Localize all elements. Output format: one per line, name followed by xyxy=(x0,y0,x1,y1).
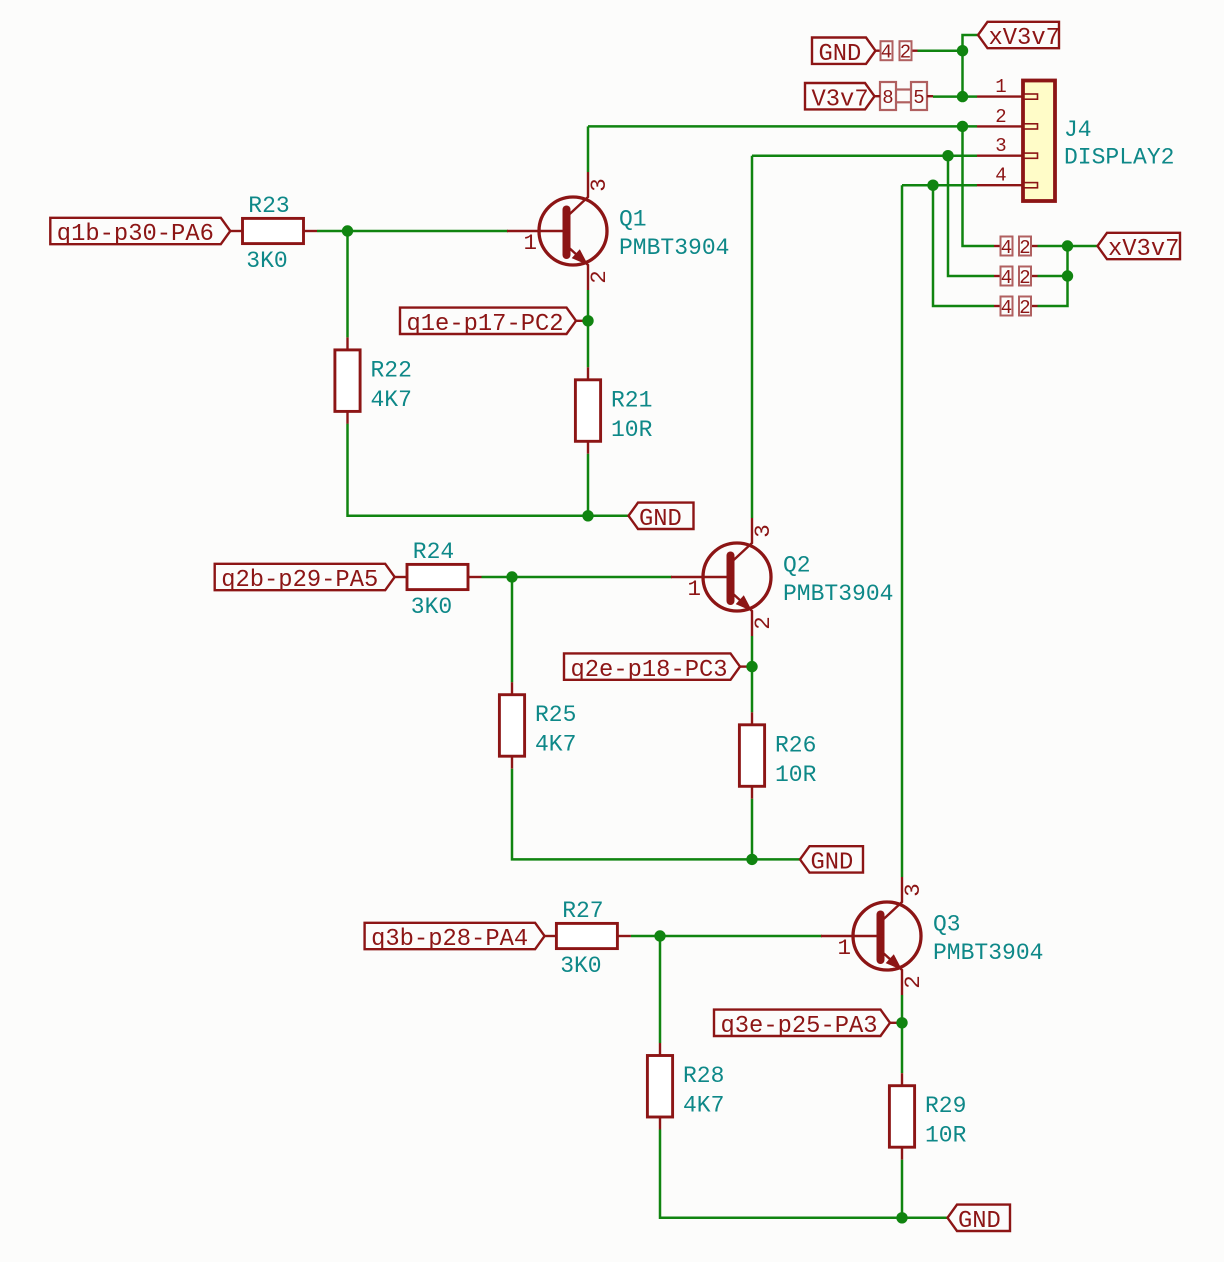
junction Q2 GND node xyxy=(746,854,757,865)
svg-text:1: 1 xyxy=(995,76,1006,98)
connector J4 pin 3 xyxy=(977,153,1038,158)
global label GND (top) xyxy=(812,38,876,68)
svg-text:q2e-p18-PC3: q2e-p18-PC3 xyxy=(571,657,728,684)
svg-text:Q1: Q1 xyxy=(619,207,647,233)
wire V3v7 jumper to node xyxy=(933,95,963,98)
solder jumper row3 pin stubs xyxy=(994,305,1001,307)
junction J4 pin4 node xyxy=(927,180,938,191)
svg-text:2: 2 xyxy=(586,270,612,284)
transistor Q3 (PMBT3904) xyxy=(821,877,921,995)
solder jumper JP-GND pad 2 xyxy=(900,41,912,60)
svg-text:4: 4 xyxy=(1001,267,1012,289)
junction Q2 base node xyxy=(506,571,517,582)
svg-text:10R: 10R xyxy=(775,762,817,788)
wire GND node to GND label xyxy=(902,1217,948,1220)
junction q1e node xyxy=(582,315,593,326)
svg-text:GND: GND xyxy=(958,1208,1001,1235)
svg-text:R25: R25 xyxy=(535,702,576,728)
wire node to xV3v7 label xyxy=(963,35,979,52)
wire GND node to GND label xyxy=(752,858,800,861)
global label xV3v7 (right) xyxy=(1098,233,1181,263)
svg-text:2: 2 xyxy=(1019,237,1030,259)
wire base node to Q1 xyxy=(348,230,509,233)
wire R22 to Q1 GND node xyxy=(348,424,589,516)
wire Q2 emitter down xyxy=(751,636,754,667)
svg-text:5: 5 xyxy=(913,87,924,109)
svg-text:3: 3 xyxy=(995,135,1006,157)
junction Q3 base node xyxy=(654,930,665,941)
solder jumper JP-GND pad 4 xyxy=(881,41,893,60)
svg-text:V3v7: V3v7 xyxy=(812,86,869,113)
wire Q3 emitter down xyxy=(901,995,904,1023)
svg-text:4K7: 4K7 xyxy=(683,1093,724,1119)
svg-text:2: 2 xyxy=(900,42,911,64)
svg-text:PMBT3904: PMBT3904 xyxy=(619,235,729,261)
svg-text:1: 1 xyxy=(687,576,701,602)
svg-text:GND: GND xyxy=(819,41,862,68)
resistor R26 body xyxy=(739,725,764,787)
svg-text:R23: R23 xyxy=(248,193,289,219)
resistor R28 body xyxy=(647,1056,672,1118)
svg-text:q3e-p25-PA3: q3e-p25-PA3 xyxy=(721,1013,878,1040)
svg-text:q1b-p30-PA6: q1b-p30-PA6 xyxy=(57,221,214,248)
svg-text:4: 4 xyxy=(1001,237,1012,259)
resistor R22 body xyxy=(335,350,360,412)
wire R21 to GND node xyxy=(587,454,590,516)
junction row2 node xyxy=(1062,270,1073,281)
svg-text:10R: 10R xyxy=(611,417,653,443)
junction J4 pin3 node xyxy=(942,150,953,161)
svg-text:Q3: Q3 xyxy=(933,912,961,938)
svg-text:R29: R29 xyxy=(925,1093,966,1119)
resistor R27 body xyxy=(556,923,617,948)
pin q2e label to node xyxy=(740,665,749,667)
svg-text:2: 2 xyxy=(1019,267,1030,289)
junction Q3 GND node xyxy=(896,1212,907,1223)
solder jumper JP-V3v7 pin stubs xyxy=(875,95,881,97)
global label V3v7 xyxy=(805,83,875,113)
svg-text:Q2: Q2 xyxy=(783,553,811,579)
junction Q1 base node xyxy=(342,225,353,236)
svg-text:4: 4 xyxy=(1001,297,1012,319)
svg-text:4K7: 4K7 xyxy=(535,732,576,758)
solder jumper JP-row3 pad 2 xyxy=(1019,297,1031,316)
resistor R27 pin stubs xyxy=(544,935,557,937)
svg-text:2: 2 xyxy=(900,975,926,989)
svg-text:2: 2 xyxy=(750,616,776,630)
svg-text:4: 4 xyxy=(995,165,1006,187)
svg-text:R22: R22 xyxy=(371,357,412,383)
svg-text:PMBT3904: PMBT3904 xyxy=(783,581,893,607)
wire pin3 node down to jumper row2 xyxy=(948,156,994,276)
svg-text:3K0: 3K0 xyxy=(246,248,287,274)
connector J4 pin 1 xyxy=(977,94,1038,99)
global label q2e-p18-PC3 xyxy=(564,653,740,683)
resistor R28 pin stubs xyxy=(659,1043,661,1056)
svg-text:GND: GND xyxy=(639,506,682,533)
svg-text:GND: GND xyxy=(811,850,854,877)
wire node to J4 pin1 xyxy=(963,95,978,98)
solder jumper JP-row2 pad 2 xyxy=(1019,267,1031,286)
global label q3b-p28-PA4 xyxy=(365,923,545,953)
resistor R24 pin stubs xyxy=(395,576,408,578)
wire R25 to Q2 GND node xyxy=(512,769,752,860)
svg-text:3: 3 xyxy=(900,883,926,897)
wire R29 to GND node xyxy=(901,1160,904,1218)
wire vertical GND node to pin1 node xyxy=(961,51,964,97)
pin q3e label to node xyxy=(890,1022,899,1024)
wire pin2 node down to jumper row1 xyxy=(963,126,995,246)
wire base node down to R25 xyxy=(511,577,514,682)
svg-text:4K7: 4K7 xyxy=(371,387,412,413)
svg-text:R28: R28 xyxy=(683,1063,724,1089)
svg-text:R27: R27 xyxy=(562,898,603,924)
resistor R29 body xyxy=(889,1086,914,1148)
wire Q2 collector up xyxy=(751,156,754,518)
wire q1e node to R21 xyxy=(587,321,590,368)
wire base node down to R22 xyxy=(346,231,349,337)
wire base node to Q2 xyxy=(512,576,672,579)
resistor R22 pin stubs xyxy=(346,337,348,350)
solder jumper JP-row1 pad 4 xyxy=(1001,237,1013,256)
transistor Q2 (PMBT3904) xyxy=(671,518,771,636)
resistor R26 pin stubs xyxy=(751,712,753,725)
solder jumper JP-row1 pad 2 xyxy=(1019,237,1031,256)
svg-text:xV3v7: xV3v7 xyxy=(989,25,1060,52)
svg-text:PMBT3904: PMBT3904 xyxy=(933,940,1043,966)
resistor R21 pin stubs xyxy=(587,367,589,380)
global label q1e-p17-PC2 xyxy=(400,308,576,338)
junction Q1 GND node xyxy=(582,510,593,521)
wire GND node to GND label xyxy=(588,515,629,518)
wire Q1 emitter down xyxy=(587,290,590,321)
wire row3 jumper up to row1 node xyxy=(1038,246,1068,306)
junction xV3v7/GND node xyxy=(957,45,968,56)
svg-text:1: 1 xyxy=(837,935,851,961)
svg-text:R21: R21 xyxy=(611,387,652,413)
resistor R25 pin stubs xyxy=(511,682,513,695)
solder jumper row1 pin stubs xyxy=(994,245,1001,247)
wire Q1 collector to J4 pin2 xyxy=(588,125,977,128)
svg-text:8: 8 xyxy=(882,87,893,109)
svg-text:3: 3 xyxy=(750,524,776,538)
svg-text:1: 1 xyxy=(523,230,537,256)
svg-text:q2b-p29-PA5: q2b-p29-PA5 xyxy=(221,567,378,594)
wire base node to Q3 xyxy=(660,935,822,938)
wire Q3 collector up xyxy=(901,185,904,877)
solder jumper JP-row3 pad 4 xyxy=(1001,297,1013,316)
junction row1 node xyxy=(1062,240,1073,251)
junction q2e node xyxy=(746,661,757,672)
global label GND (Q1) xyxy=(629,503,694,533)
solder jumper JP-GND pin stubs xyxy=(876,50,881,52)
global label xV3v7 (top) xyxy=(978,22,1060,52)
svg-text:2: 2 xyxy=(1019,297,1030,319)
resistor R24 body xyxy=(407,564,468,589)
junction J4 pin1 node xyxy=(957,91,968,102)
wire Q1 collector up xyxy=(587,126,590,172)
svg-text:4: 4 xyxy=(881,42,892,64)
svg-text:J4: J4 xyxy=(1064,117,1092,143)
wire Q3 collector to J4 pin4 xyxy=(902,184,977,187)
wire R28 to Q3 GND node xyxy=(660,1130,902,1218)
connector J4 pin 2 xyxy=(977,124,1038,129)
global label q2b-p29-PA5 xyxy=(215,564,395,594)
resistor R23 pin stubs xyxy=(230,230,243,232)
svg-text:10R: 10R xyxy=(925,1123,967,1149)
solder jumper JP-V3v7 (closed) xyxy=(880,82,927,110)
connector J4 body xyxy=(1023,81,1055,202)
svg-text:3K0: 3K0 xyxy=(411,594,452,620)
wire R23 to base node xyxy=(317,230,348,233)
svg-text:xV3v7: xV3v7 xyxy=(1108,236,1179,263)
svg-text:3K0: 3K0 xyxy=(560,953,601,979)
transistor Q1 (PMBT3904) xyxy=(507,172,607,290)
resistor R29 pin stubs xyxy=(901,1073,903,1086)
pin q1e label to node xyxy=(576,320,585,322)
svg-text:q1e-p17-PC2: q1e-p17-PC2 xyxy=(407,311,564,338)
resistor R23 body xyxy=(243,218,304,243)
solder jumper JP-row2 pad 4 xyxy=(1001,267,1013,286)
solder jumper row2 pin stubs xyxy=(994,275,1001,277)
svg-text:q3b-p28-PA4: q3b-p28-PA4 xyxy=(371,926,528,953)
global label q1b-p30-PA6 xyxy=(50,218,230,248)
wire base node down to R28 xyxy=(659,936,662,1043)
junction q3e node xyxy=(896,1017,907,1028)
wire R26 to GND node xyxy=(751,799,754,860)
resistor R21 body xyxy=(575,380,600,442)
wire Q2 collector to J4 pin3 xyxy=(752,154,977,157)
wire R24 to base node xyxy=(482,576,513,579)
junction J4 pin2 node xyxy=(957,121,968,132)
wire R27 to base node xyxy=(631,935,660,938)
svg-text:R24: R24 xyxy=(413,539,454,565)
global label GND (Q3) xyxy=(948,1205,1011,1235)
wire q3e node to R29 xyxy=(901,1023,904,1073)
wire pin4 node down to jumper row3 xyxy=(933,185,994,306)
global label q3e-p25-PA3 xyxy=(714,1010,890,1040)
wire GND jumper to node xyxy=(918,49,963,52)
global label GND (Q2) xyxy=(800,846,863,876)
svg-text:2: 2 xyxy=(995,106,1006,128)
connector J4 pin 4 xyxy=(977,183,1038,188)
wire q2e node to R26 xyxy=(751,667,754,713)
svg-text:R26: R26 xyxy=(775,732,816,758)
svg-text:DISPLAY2: DISPLAY2 xyxy=(1064,145,1174,171)
wire row2 jumper to node xyxy=(1038,275,1068,278)
resistor R25 body xyxy=(499,695,524,757)
wire row1 jumper to xV3v7 node xyxy=(1038,245,1098,248)
svg-text:3: 3 xyxy=(586,178,612,192)
